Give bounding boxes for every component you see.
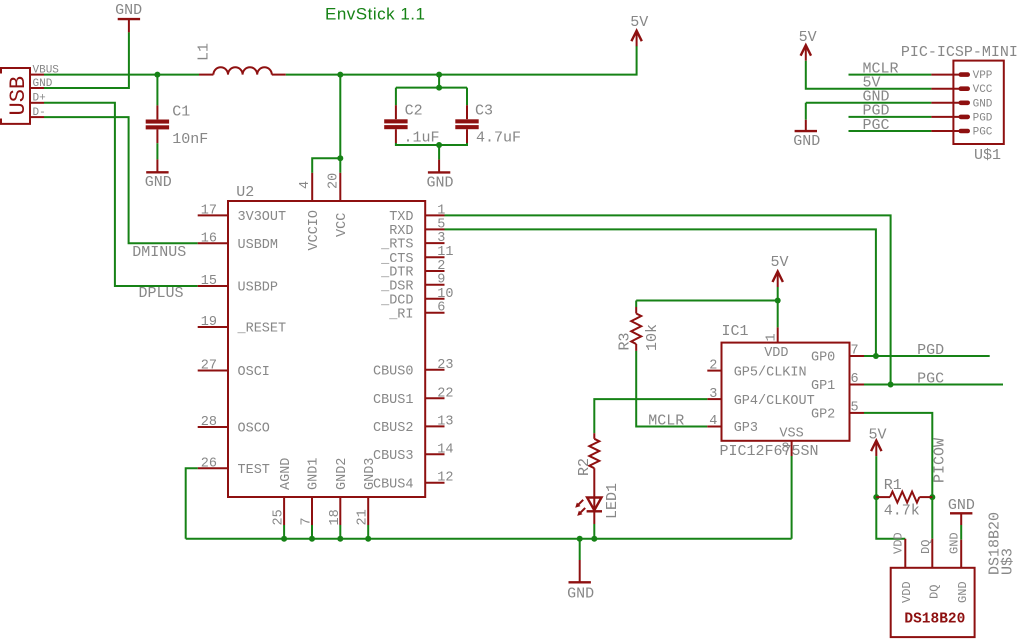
U2 pin 5 RXD	[389, 217, 445, 239]
U2 pin 26 TEST	[198, 456, 270, 478]
svg-text:VCC: VCC	[335, 213, 350, 237]
svg-text:PGD: PGD	[917, 342, 944, 359]
svg-text:PGC: PGC	[863, 117, 890, 134]
U$1 pin VCC	[931, 84, 992, 96]
svg-text:17: 17	[201, 203, 217, 218]
svg-text:GND: GND	[948, 497, 975, 514]
svg-text:4: 4	[298, 181, 313, 189]
svg-text:USBDP: USBDP	[238, 281, 279, 296]
capacitor C3	[455, 102, 521, 146]
wire TEST pin to GND bus	[186, 468, 198, 539]
svg-text:_DSR: _DSR	[380, 279, 413, 294]
svg-text:_DCD: _DCD	[380, 293, 413, 308]
junction C2/C3 bottom	[436, 142, 442, 148]
svg-text:10: 10	[437, 287, 453, 302]
junction PGD/RXD	[873, 353, 879, 359]
svg-text:TEST: TEST	[238, 463, 270, 478]
junction VCC join	[337, 155, 343, 161]
USB pin GND	[30, 78, 53, 90]
U2 pin 9 _DSR	[380, 273, 445, 295]
svg-text:DQ: DQ	[919, 540, 933, 554]
svg-text:D+: D+	[33, 93, 46, 105]
DS18B20 pin VDD	[892, 532, 914, 603]
svg-text:GND: GND	[973, 98, 993, 110]
wire DPLUS (USB D+ to U2 USBDP)	[44, 103, 198, 286]
U2 pin 21 GND3	[356, 458, 378, 539]
wire R3 to MCLR/GP3	[636, 351, 707, 427]
svg-text:7: 7	[851, 344, 859, 359]
svg-text:GND: GND	[115, 2, 142, 19]
ground C1	[146, 159, 168, 172]
svg-text:5: 5	[851, 401, 859, 416]
capacitor C2	[384, 102, 439, 146]
U2 pin 7 GND1	[300, 458, 322, 539]
supply 5V top	[630, 14, 648, 46]
ground DS18B20	[950, 513, 972, 525]
svg-text:DPLUS: DPLUS	[139, 285, 184, 302]
junction LED/GND bus	[591, 536, 597, 542]
svg-text:18: 18	[328, 509, 343, 525]
svg-text:13: 13	[437, 414, 453, 429]
svg-text:IC1: IC1	[722, 323, 749, 340]
U2 pin 27 OSCI	[198, 359, 270, 381]
U2 pin 3 _RTS	[380, 231, 445, 253]
ground top-left	[118, 19, 140, 32]
svg-text:3: 3	[437, 231, 445, 246]
svg-text:CBUS4: CBUS4	[373, 477, 414, 492]
wire bus to GND symbol	[579, 539, 581, 560]
svg-text:DQ: DQ	[928, 585, 942, 599]
svg-text:USB: USB	[6, 76, 31, 116]
svg-text:U$1: U$1	[974, 147, 1001, 164]
svg-text:CBUS0: CBUS0	[373, 364, 414, 379]
U2 pin 17 3V3OUT	[198, 203, 286, 225]
wire GP4/CLKOUT to R2	[594, 399, 707, 433]
U2 pin 14 CBUS3	[373, 442, 454, 464]
wire PGD (GP0)	[864, 355, 990, 357]
svg-text:LED1: LED1	[604, 483, 621, 519]
wire C2/C3 bottom rail	[396, 143, 467, 160]
svg-text:GP2: GP2	[811, 408, 835, 423]
svg-text:PICOW: PICOW	[932, 438, 949, 483]
IC1 pin 5 GP2	[811, 401, 864, 423]
wire GND bus	[186, 538, 792, 540]
svg-text:6: 6	[437, 301, 445, 316]
U$1 pin GND	[931, 98, 992, 110]
svg-text:5V: 5V	[799, 29, 817, 46]
svg-text:VDD: VDD	[764, 346, 788, 361]
svg-text:GND1: GND1	[307, 458, 322, 490]
junction rail/C2C3	[436, 72, 442, 78]
wire rail down to C2/C3 top	[438, 75, 440, 88]
svg-text:GND2: GND2	[335, 458, 350, 490]
wire VBUS to C1	[156, 75, 158, 106]
U$1 pin VPP	[931, 70, 992, 82]
U2 pin 6 _RI	[388, 301, 445, 323]
capacitor C1	[146, 104, 209, 148]
supply 5V at R1	[869, 427, 887, 456]
svg-text:DMINUS: DMINUS	[132, 244, 186, 261]
svg-text:4.7uF: 4.7uF	[476, 130, 521, 147]
LED LED1	[575, 468, 621, 524]
U$1 pin PGD	[931, 112, 992, 124]
svg-text:CBUS2: CBUS2	[373, 421, 414, 436]
svg-text:TXD: TXD	[389, 210, 413, 225]
inductor L1	[196, 43, 286, 75]
svg-text:20: 20	[327, 173, 342, 189]
svg-text:USBDM: USBDM	[238, 238, 279, 253]
U2 pin 25 AGND	[272, 458, 294, 539]
svg-text:11: 11	[437, 245, 453, 260]
svg-text:2: 2	[709, 358, 717, 373]
svg-text:C2: C2	[405, 102, 423, 119]
svg-text:23: 23	[437, 358, 453, 373]
svg-text:9: 9	[437, 273, 445, 288]
svg-text:EnvStick 1.1: EnvStick 1.1	[325, 5, 426, 24]
junction GND bus GND2	[337, 536, 343, 542]
svg-text:PGC: PGC	[973, 127, 993, 139]
USB pin D+	[30, 93, 46, 105]
svg-text:27: 27	[201, 359, 217, 374]
wire TXD (U2 pin1 to PGC junction)	[445, 215, 891, 384]
U2 pin 28 OSCO	[198, 415, 270, 437]
svg-text:GP1: GP1	[811, 379, 835, 394]
svg-text:12: 12	[437, 471, 453, 486]
svg-text:8: 8	[781, 442, 789, 457]
supply 5V at ICSP	[799, 29, 817, 61]
svg-text:GND: GND	[956, 581, 970, 603]
svg-text:MCLR: MCLR	[648, 412, 684, 429]
wire 5V rail L1 to 5V arrow	[286, 46, 637, 75]
svg-text:R1: R1	[884, 477, 902, 494]
ground C2C3	[428, 160, 450, 173]
wire LED1 to GND bus	[593, 524, 595, 539]
svg-text:5V: 5V	[630, 14, 648, 31]
wire VCC/VCCIO join	[312, 75, 340, 173]
resistor R1	[876, 477, 932, 519]
svg-text:1: 1	[764, 333, 779, 341]
svg-text:_RESET: _RESET	[237, 322, 287, 337]
U2 pin 1 TXD	[389, 203, 445, 225]
svg-text:3V3OUT: 3V3OUT	[238, 210, 287, 225]
svg-text:GND: GND	[427, 174, 454, 191]
junction GND bus GND3	[365, 536, 371, 542]
U2 pin 18 GND2	[328, 458, 350, 539]
svg-text:4.7k: 4.7k	[884, 502, 920, 519]
svg-text:_RTS: _RTS	[380, 238, 413, 253]
svg-text:U2: U2	[236, 184, 254, 201]
IC1 pin 1 VDD	[764, 327, 788, 361]
U2 pin 10 _DCD	[380, 287, 453, 309]
svg-text:5V: 5V	[771, 254, 789, 271]
DS18B20 pin DQ	[919, 539, 942, 599]
wire VSS to GND bus	[791, 456, 793, 539]
svg-text:OSCI: OSCI	[238, 365, 270, 380]
svg-text:26: 26	[201, 456, 217, 471]
junction VCC rail	[337, 72, 343, 78]
U2 pin 12 CBUS4	[373, 471, 454, 493]
IC1 pin 3 GP4/CLKOUT	[707, 387, 814, 409]
IC IC1 body	[720, 323, 850, 460]
U2 pin 16 USBDM	[198, 231, 278, 253]
svg-text:10nF: 10nF	[172, 131, 208, 148]
junction GND bus GND1	[309, 536, 315, 542]
wire C1 to GND	[156, 143, 158, 159]
svg-text:R3: R3	[617, 332, 634, 350]
U2 pin 13 CBUS2	[373, 414, 454, 436]
svg-text:PGC: PGC	[917, 371, 944, 388]
U2 pin 23 CBUS0	[373, 358, 454, 380]
USB connector	[1, 68, 31, 124]
junction R1 left	[873, 494, 879, 500]
svg-text:GND: GND	[567, 585, 594, 602]
connector U$1 PIC-ICSP-MINI body	[901, 44, 1017, 164]
wire GND to DS18B20 GND pin	[960, 525, 962, 540]
USB pin D-	[30, 107, 46, 119]
svg-text:4: 4	[709, 414, 717, 429]
svg-text:19: 19	[201, 315, 217, 330]
U2 pin 4 VCCIO	[298, 173, 322, 251]
svg-text:6: 6	[851, 372, 859, 387]
U$1 pin PGC	[931, 127, 992, 139]
wire DMINUS (USB D- to U2 USBDM)	[44, 117, 198, 243]
junction C2/C3 top	[436, 85, 442, 91]
IC1 pin 7 GP0	[811, 344, 864, 366]
svg-text:10k: 10k	[644, 324, 661, 351]
U2 pin 11 _CTS	[380, 245, 453, 267]
wire PGC stub to ICSP	[849, 130, 932, 132]
svg-text:VCCIO: VCCIO	[307, 210, 322, 251]
junction VBUS/C1	[154, 72, 160, 78]
svg-text:GND: GND	[793, 133, 820, 150]
IC U2 body	[228, 184, 425, 497]
supply 5V at IC1 VDD	[771, 254, 789, 287]
svg-text:VCC: VCC	[973, 84, 993, 96]
U2 pin 22 CBUS1	[373, 386, 454, 408]
svg-text:7: 7	[300, 517, 315, 525]
svg-text:DS18B20: DS18B20	[904, 612, 965, 628]
svg-text:3: 3	[709, 387, 717, 402]
svg-text:VPP: VPP	[973, 70, 993, 82]
IC1 pin 6 GP1	[811, 372, 864, 394]
svg-text:AGND: AGND	[279, 458, 294, 490]
svg-text:VDD: VDD	[892, 532, 906, 554]
svg-text:C1: C1	[172, 104, 190, 121]
wire VBUS from USB to L1	[44, 74, 199, 76]
U2 pin 19 _RESET	[198, 315, 286, 337]
svg-text:VSS: VSS	[779, 427, 803, 442]
svg-text:GND3: GND3	[363, 458, 378, 490]
resistor R2	[576, 433, 599, 476]
resistor R3	[617, 307, 661, 351]
junction R1 right	[929, 494, 935, 500]
svg-text:GP5/CLKIN: GP5/CLKIN	[734, 365, 807, 380]
svg-text:GND: GND	[948, 532, 962, 554]
wire C2/C3 top rail	[396, 88, 467, 106]
svg-text:GP3: GP3	[734, 421, 758, 436]
wire PGD stub to ICSP	[849, 116, 932, 118]
svg-text:15: 15	[201, 274, 217, 289]
svg-text:GND: GND	[145, 174, 172, 191]
wire GP2 to DQ (PICOW net)	[864, 413, 932, 539]
svg-text:21: 21	[356, 509, 371, 525]
ground bottom	[569, 560, 591, 582]
ground ICSP	[795, 120, 817, 131]
wire 5V to VDD/R3	[636, 287, 778, 327]
wire PGC (GP1)	[864, 384, 1003, 386]
IC1 pin 4 GP3	[707, 414, 758, 436]
svg-text:14: 14	[437, 442, 453, 457]
svg-text:U$3: U$3	[1000, 548, 1017, 575]
svg-text:_CTS: _CTS	[380, 252, 413, 267]
wire 5V to ICSP VCC	[806, 61, 932, 89]
svg-text:D-: D-	[33, 107, 46, 119]
DS18B20 pin GND	[948, 532, 970, 603]
IC U$3 DS18B20 body	[891, 512, 1017, 637]
junction PGC/TXD	[888, 382, 894, 388]
svg-text:L1: L1	[196, 43, 213, 61]
svg-text:C3: C3	[475, 102, 493, 119]
svg-text:OSCO: OSCO	[238, 422, 270, 437]
USB pin VBUS	[30, 64, 59, 76]
wire RXD (U2 pin5 to PGD junction)	[445, 229, 876, 356]
svg-text:PGD: PGD	[973, 112, 993, 124]
U2 pin 20 VCC	[327, 173, 350, 237]
wire 5V down to R1/VDD	[876, 456, 905, 539]
junction 5V/R3/VDD	[775, 298, 781, 304]
U2 pin 15 USBDP	[198, 274, 278, 296]
junction GND symbol/bus	[577, 536, 583, 542]
svg-text:PIC-ICSP-MINI: PIC-ICSP-MINI	[901, 44, 1017, 61]
IC1 pin 8 VSS	[779, 427, 803, 457]
svg-text:_RI: _RI	[388, 307, 413, 322]
svg-text:28: 28	[201, 415, 217, 430]
wire ICSP GND	[806, 103, 932, 120]
svg-text:CBUS1: CBUS1	[373, 393, 414, 408]
svg-text:22: 22	[437, 386, 453, 401]
svg-text:1: 1	[437, 203, 445, 218]
IC1 pin 2 GP5/CLKIN	[707, 358, 806, 380]
junction GND bus AGND	[281, 536, 287, 542]
svg-text:16: 16	[201, 231, 217, 246]
wire MCLR stub to ICSP	[849, 74, 932, 76]
svg-text:CBUS3: CBUS3	[373, 449, 414, 464]
svg-text:VDD: VDD	[900, 581, 914, 603]
U2 pin 2 _DTR	[380, 259, 445, 281]
svg-text:R2: R2	[576, 458, 593, 476]
svg-text:PIC12F675SN: PIC12F675SN	[720, 443, 819, 460]
svg-text:GP4/CLKOUT: GP4/CLKOUT	[734, 394, 815, 409]
svg-text:25: 25	[272, 509, 287, 525]
svg-text:GP0: GP0	[811, 351, 835, 366]
wire GND net from USB	[44, 32, 129, 88]
